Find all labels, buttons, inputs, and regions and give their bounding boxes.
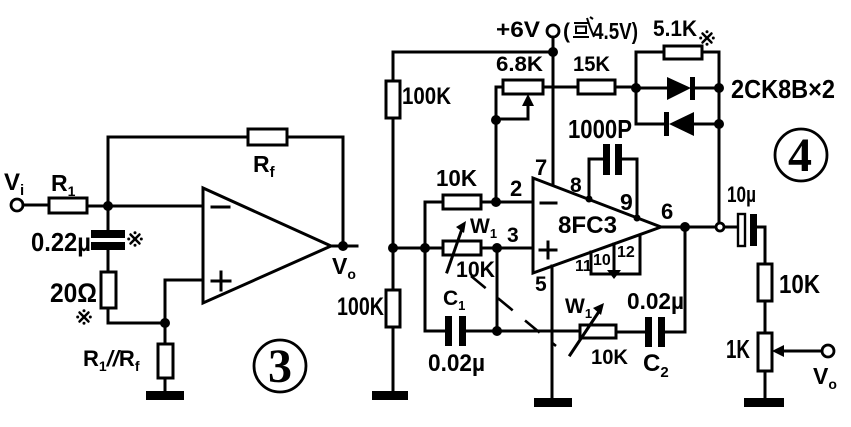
wire output (331, 245, 357, 248)
output terminal Vo (822, 345, 834, 357)
svg-text:3: 3 (268, 340, 292, 393)
capacitor 0.22u plate top (91, 230, 125, 238)
wiper arrow W1 lower (570, 310, 600, 355)
wire node A to capacitor (107, 206, 110, 230)
wire left rail upper (392, 52, 395, 248)
minus sign U1 (212, 206, 229, 209)
capacitor 0.22u plate bottom (91, 242, 125, 250)
svg-text:10µ: 10µ (727, 182, 756, 207)
wire mid rail to W1 (393, 247, 443, 250)
wire 6.8K left lead down (496, 87, 503, 120)
wire feedback top (108, 136, 343, 139)
wire +6V down (552, 37, 555, 52)
resistor 100K lower (386, 290, 400, 327)
svg-text:R1//Rf: R1//Rf (83, 346, 140, 374)
svg-text:0.02µ: 0.02µ (428, 350, 485, 377)
input terminal Vi (11, 199, 23, 211)
svg-text:8FC3: 8FC3 (558, 212, 617, 239)
wire C1 left (425, 330, 445, 333)
svg-text:6: 6 (661, 199, 673, 224)
wire lower to W1 lower (497, 330, 580, 333)
gang dashed link (471, 276, 556, 346)
wire pin 5 to ground (551, 266, 554, 398)
wire 10K left lead (425, 201, 443, 204)
node pin3 junction (492, 243, 502, 253)
svg-text:+6V: +6V (496, 17, 540, 42)
wire capacitor to 20ohm (107, 250, 110, 272)
node pin2 junction (491, 197, 501, 207)
diode D2 (636, 123, 666, 126)
node pin8 junction (586, 196, 593, 203)
potentiometer W1 upper (443, 241, 481, 255)
node pin9 junction (634, 215, 641, 222)
wire pin3 node down (496, 248, 499, 331)
svg-text:2: 2 (510, 176, 522, 201)
wire R1//Rf to ground (164, 378, 167, 392)
svg-text:9: 9 (620, 189, 633, 215)
capacitor C1 left plate (445, 316, 452, 346)
wire top rail (393, 51, 553, 54)
capacitor 10u right plate (750, 214, 757, 246)
svg-text:10K: 10K (591, 346, 628, 369)
wire 10u right (757, 227, 765, 264)
resistor 10K upper (443, 195, 481, 209)
wire plus input (165, 280, 203, 323)
capacitor C2 right plate (658, 317, 665, 347)
wire C1 right (466, 330, 497, 333)
plus sign U1 (212, 272, 230, 290)
wire W1 lower to C2 (616, 331, 645, 334)
ground left rail (372, 391, 408, 400)
node A junction (103, 201, 113, 211)
svg-text:1000P: 1000P (568, 114, 632, 144)
resistor 100K upper (386, 81, 400, 118)
svg-text:(: ( (563, 20, 570, 43)
reference mark (127, 231, 143, 247)
resistor 15K (578, 80, 615, 94)
rheostat 6.8K (503, 80, 543, 94)
wire 5.1K branch top (636, 51, 719, 54)
capacitor 1000P right plate (615, 144, 622, 175)
wire W1 to pin3 (481, 247, 533, 250)
svg-text:15K: 15K (573, 53, 610, 76)
ground 1K (744, 398, 784, 407)
resistor 20ohm (101, 272, 116, 308)
figure number 4 (775, 129, 827, 181)
resistor R1 (49, 198, 87, 213)
resistor Rf (248, 129, 287, 145)
svg-text:4: 4 (788, 129, 812, 182)
node rail junction ring (716, 223, 724, 231)
node diode right lower junction (714, 119, 724, 129)
wire C2 right up to output (665, 227, 685, 332)
node diode right upper junction (714, 83, 724, 93)
wire node A up to feedback (107, 137, 110, 206)
wiper arrow W1 upper (447, 226, 463, 272)
node D junction (492, 326, 502, 336)
svg-text:10: 10 (593, 252, 611, 269)
wiper arrow 6.8K (496, 100, 528, 119)
wire left rail lower (392, 248, 395, 392)
ground pin5 (534, 398, 572, 407)
potentiometer 1K (758, 333, 772, 371)
svg-text:10K: 10K (779, 269, 820, 299)
svg-text:1K: 1K (726, 334, 750, 364)
svg-text:5.1K: 5.1K (653, 16, 697, 41)
capacitor 1000P left plate (603, 144, 610, 175)
wire Vi to R1 (23, 204, 49, 207)
capacitor 10u left plate (738, 214, 745, 246)
tap arrow 1K (780, 350, 822, 353)
node mid rail junction (388, 243, 398, 253)
wire 1000P to pin9 (622, 159, 637, 218)
plus sign U2 (540, 242, 556, 258)
node B junction (160, 318, 170, 328)
wire 10K to pin2 (481, 201, 533, 204)
capacitor C2 left plate (645, 317, 652, 347)
wire 20ohm down and right (108, 308, 165, 323)
svg-text:5: 5 (535, 273, 547, 296)
svg-text:0.22µ: 0.22µ (31, 227, 91, 257)
node output junction (680, 222, 690, 232)
pin bracket triangle (607, 270, 621, 279)
svg-text:10K: 10K (436, 165, 477, 191)
svg-text:20Ω: 20Ω (50, 278, 97, 308)
figure number 3 (254, 340, 306, 392)
pin box 12 divider (613, 244, 616, 274)
node +6V junction (548, 47, 558, 57)
wire diode block right vertical (718, 52, 721, 227)
ground (146, 391, 184, 400)
node C junction (420, 243, 430, 253)
reference mark (699, 30, 715, 46)
node 6.8K junction (491, 115, 501, 125)
node diode left junction (631, 83, 641, 93)
op-amp U1 (203, 188, 331, 303)
op-amp U2 (533, 178, 661, 273)
svg-text:6.8K: 6.8K (496, 53, 543, 76)
svg-text:100K: 100K (337, 293, 384, 321)
capacitor C1 right plate (459, 316, 466, 346)
pin box 10 (591, 235, 640, 274)
svg-text:11: 11 (575, 258, 592, 275)
wire feedback down to output (342, 137, 345, 246)
wire 15K to diode block (615, 86, 636, 89)
svg-text:2CK8B×2: 2CK8B×2 (731, 74, 835, 104)
resistor R1//Rf (158, 344, 173, 378)
resistor 10K right (758, 264, 772, 301)
reference mark (76, 309, 92, 325)
svg-text:7: 7 (535, 155, 547, 180)
wire node C down to C1 (424, 248, 427, 331)
wire pin7 supply (552, 52, 555, 186)
svg-text:8: 8 (570, 174, 582, 197)
wire node B to R1//Rf (164, 323, 167, 344)
wire R1 to opamp minus input (87, 205, 203, 208)
svg-text:12: 12 (617, 244, 635, 261)
wire diode block left vertical (635, 52, 638, 124)
wire pin8 to 1000P (589, 159, 603, 199)
wire 6.8K to 15K (543, 86, 578, 89)
potentiometer W1 lower (580, 325, 616, 338)
minus sign U2 (541, 202, 556, 205)
wire node C up to 10K (424, 202, 427, 248)
svg-text:3: 3 (507, 224, 519, 247)
wire 1K to ground (764, 371, 767, 398)
svg-text:0.02µ: 0.02µ (627, 288, 684, 314)
wire output pin6 (661, 226, 738, 229)
wire 10K to 1K (764, 301, 767, 333)
node output junction (338, 241, 348, 251)
svg-text:4.5V): 4.5V) (593, 18, 638, 44)
wire 6.8K node to pin2 (495, 120, 498, 202)
power terminal +6V (547, 25, 559, 37)
resistor 5.1K (664, 46, 702, 59)
svg-text:100K: 100K (402, 83, 452, 110)
diode D1 (636, 87, 667, 90)
